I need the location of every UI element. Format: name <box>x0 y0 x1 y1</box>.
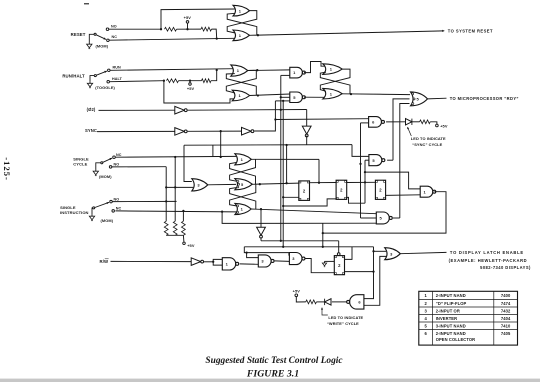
wire L right branch down to U9.a <box>352 145 369 157</box>
wire U7e out to clock line L1 <box>260 238 262 241</box>
svg-text:(EXAMPLE: HEWLETT-PACKARD: (EXAMPLE: HEWLETT-PACKARD <box>449 258 527 263</box>
wire bus B to FF1 lower pin <box>283 196 299 198</box>
nand gate U12 (7410) <box>376 212 389 224</box>
wire S1-NC node <box>109 38 235 40</box>
or gate U16 (7432) display latch enable <box>385 248 401 260</box>
vertical from S4-NC to resistor R8 <box>182 211 184 221</box>
vertical x365 <box>364 160 366 203</box>
wire U7d out to U8a input <box>254 101 368 131</box>
wire U10d out down to U7e <box>260 209 262 227</box>
svg-text:NC: NC <box>116 207 122 211</box>
wire U10b out to dff line <box>251 159 320 184</box>
svg-text:(TOGGLE): (TOGGLE) <box>95 85 115 90</box>
svg-text:3-INPUT NAND: 3-INPUT NAND <box>436 323 466 328</box>
+5V supply (reset latch) <box>184 15 192 29</box>
nand gate U2a (7400, run/halt latch) <box>231 65 248 76</box>
inverter U7a (7404) phase2 buffer <box>175 106 185 114</box>
wire cross-couple U10b out to U10c in <box>230 159 256 181</box>
wire FF2 Q to FF3 D <box>347 181 376 183</box>
switch S4 single instruction <box>89 200 114 220</box>
wire U8a out to LED D1 <box>386 121 405 123</box>
svg-text:NO: NO <box>114 198 120 202</box>
wire L down to U10a input <box>184 145 192 181</box>
nand gate U11 (7400) <box>420 186 433 197</box>
wire cross-couple U2b out to U2a in <box>226 74 256 96</box>
wire cross-couple U1b out to U1a in <box>227 13 259 36</box>
wire U2a out to U3 input <box>248 69 290 71</box>
wire R4 to RUN node <box>211 70 217 81</box>
svg-text:RUN: RUN <box>113 66 122 70</box>
svg-text:“D” FLIP-FLOP: “D” FLIP-FLOP <box>436 301 467 306</box>
svg-text:LED TO INDICATE: LED TO INDICATE <box>411 136 446 141</box>
wire R9 to +5V <box>296 297 306 302</box>
inverter U7f (7404) <box>191 258 201 266</box>
scan artifact dash top-left <box>84 3 89 5</box>
resistor R8 pullup <box>182 221 186 235</box>
wire x365 to U11.a <box>365 172 420 189</box>
svg-text:(Ø2): (Ø2) <box>87 107 96 112</box>
wire U4 out to U5b input <box>304 96 325 98</box>
resistor R9 <box>306 300 317 304</box>
wire U5b out to RDY nand <box>342 93 410 95</box>
wire U4.b from feedback bus A <box>280 96 290 98</box>
wire U12.c input long <box>222 212 376 224</box>
svg-text:+5V: +5V <box>184 15 192 20</box>
nand gate U15 (7432?) <box>289 253 302 265</box>
wire S2-RUN node <box>110 69 235 71</box>
wire U4.c from sync path <box>275 100 289 102</box>
resistor R6 pullup <box>164 221 168 235</box>
svg-text:R/W: R/W <box>100 259 109 264</box>
wire U13 out to U14.b <box>240 263 259 265</box>
wire S2-HALT node <box>109 80 165 82</box>
wire U7f out to U13 inputs <box>204 259 222 265</box>
parts legend table <box>419 291 518 345</box>
wire U14 out to U15.b <box>275 260 290 263</box>
vertical x322.8 <box>322 223 324 248</box>
wire x365 to U9.b <box>365 159 369 161</box>
wire SYNC input <box>97 130 175 132</box>
nand gate U1a (7400, reset latch) <box>233 5 250 16</box>
wire U6 output to RDY <box>428 97 447 100</box>
wire cross-couple U10c out to U10b in <box>230 163 256 185</box>
wire S3-NC to U10b.a <box>115 156 236 158</box>
nand gate U5a (7400, sync latch) <box>323 64 342 75</box>
wire clock node down to U7c <box>306 110 308 127</box>
+5V terminal (sync LED) <box>436 123 448 128</box>
resistor R4 pullup RUN <box>202 79 212 83</box>
or gate U10a (7432) <box>192 179 208 191</box>
svg-text:-125-: -125- <box>2 157 12 181</box>
wire to system reset <box>250 30 445 36</box>
wire cross-couple U5a out to U5b in <box>320 69 350 91</box>
nand gate U8b (7405 o.c., mirrored) <box>350 295 364 309</box>
svg-text:(MOM): (MOM) <box>101 218 114 223</box>
wire U16 out to display latch enable <box>400 252 446 253</box>
svg-text:7404: 7404 <box>501 316 511 321</box>
line L from U7c to gates <box>184 144 352 146</box>
svg-text:NC: NC <box>116 153 122 157</box>
svg-text:7405: 7405 <box>501 331 511 336</box>
wire U11 out feedback loop <box>323 192 446 233</box>
wire U15 out to FF4 <box>306 259 335 273</box>
nand gate U2b (7400, run/halt latch) <box>232 90 249 101</box>
wire R3 to +5V tap <box>179 80 202 82</box>
wire R1 to +5V tap <box>177 28 202 30</box>
feedback bus B (vertical x=283.2) <box>282 101 284 248</box>
wire U8b out to LED D2 <box>332 301 347 303</box>
wire FF2 lower out to vertical x365 <box>347 197 365 203</box>
line L2 r/w logic feed <box>244 247 289 258</box>
label R/W <box>100 259 109 264</box>
vertical from S3-NC to resistor R7 <box>174 157 176 221</box>
svg-text:HALT: HALT <box>112 77 123 81</box>
feedback bus A (vertical x=280.8) <box>280 75 282 242</box>
wire to U16.a <box>374 250 387 252</box>
wire U7b out <box>188 130 242 132</box>
wire bus B to FF2 lower pin <box>283 199 336 206</box>
label SINGLE INSTRUCTION <box>60 205 88 215</box>
inverter U7b (7404) sync buffer <box>175 128 185 136</box>
leader arrow to LED D1 <box>407 127 411 136</box>
nand gate U4 (7410 3-input) <box>290 92 303 103</box>
nand gate U13 (7400) <box>222 258 235 270</box>
LED D1 sync indicator <box>406 119 412 125</box>
wire U2b out to U4 input <box>250 94 290 97</box>
wire HALT to U2b input <box>164 81 235 103</box>
vertical V4 to dff input line <box>285 145 287 184</box>
svg-text:SYNC: SYNC <box>85 128 97 133</box>
wire U9 out up to U6.b <box>387 159 393 161</box>
switch S2 RUN/HALT (SPDT toggle) <box>87 69 110 88</box>
resistor R7 pullup <box>173 221 177 235</box>
svg-text:RUN/HALT: RUN/HALT <box>62 73 85 78</box>
+5V terminal (write LED) <box>293 289 301 297</box>
wire U3 out to U5a input <box>304 62 325 73</box>
wire LED D2 to R9 <box>316 301 324 303</box>
wire S1-NO node <box>109 9 235 30</box>
wire U6.b from U9 out (vertical) <box>393 99 410 160</box>
svg-text:RESET: RESET <box>71 32 86 37</box>
svg-text:5082-7340 DISPLAYS): 5082-7340 DISPLAYS) <box>480 265 531 270</box>
+5V supply (run/halt latch) <box>187 81 195 92</box>
svg-text:“WRITE” CYCLE: “WRITE” CYCLE <box>327 321 359 326</box>
svg-text:7400: 7400 <box>501 293 511 298</box>
wire sync tap down <box>220 131 222 157</box>
wire U10d out node <box>251 208 376 214</box>
line L3 horizontal <box>244 246 373 248</box>
wire R2 to NC node <box>212 29 218 40</box>
wire cross-couple U2a out to U2b in <box>226 70 256 93</box>
vertical bus from U8a.b down <box>359 123 361 218</box>
wire U6.c from U12 out (vertical) <box>400 104 410 219</box>
d flip-flop FF2 (7474) <box>336 180 347 199</box>
resistor R3 pullup HALT <box>167 79 179 83</box>
wire clock line tap down to single-cycle line <box>212 145 214 157</box>
svg-text:INSTRUCTION: INSTRUCTION <box>60 210 88 215</box>
ground at FF4 <box>322 261 334 266</box>
wire cross-couple U1a out to U1b in <box>227 11 257 33</box>
label SINGLE CYCLE <box>73 156 89 166</box>
svg-text:NO: NO <box>114 162 120 166</box>
svg-text:7474: 7474 <box>501 301 511 306</box>
wire R/W input <box>111 260 192 262</box>
d flip-flop FF3 (7474) <box>375 180 385 199</box>
svg-text:(MOM): (MOM) <box>99 174 112 179</box>
inverter U7e (7404) down <box>257 227 266 235</box>
svg-text:LED TO INDICATE: LED TO INDICATE <box>328 315 363 320</box>
resistor R2 pullup NC <box>201 27 212 31</box>
switch S3 single cycle <box>93 156 115 176</box>
svg-text:CYCLE: CYCLE <box>73 162 87 167</box>
nand gate U10d (7400, latch) <box>235 203 251 214</box>
nand gate U3 (7400) <box>290 67 303 78</box>
leader arrow to LED D2 <box>321 307 328 315</box>
vertical x373.5 to write gate <box>364 247 375 299</box>
inverter U7d (7404) <box>242 127 252 135</box>
svg-text:2-INPUT NAND: 2-INPUT NAND <box>436 331 466 336</box>
+5V terminal (pullups) <box>183 242 195 248</box>
wire phase2 to clock node <box>188 109 307 111</box>
resistor R1 pullup NO <box>165 27 177 31</box>
wire FF3 out to U11.b <box>386 194 421 197</box>
svg-text:NC: NC <box>112 35 118 39</box>
nand gate U1b (7400, reset latch) <box>233 30 250 41</box>
resistor R5 <box>412 120 430 124</box>
wire S3-NO down <box>112 167 167 222</box>
nand gate U6 (7410) to RDY <box>411 92 428 106</box>
wire R5 to +5V <box>430 122 437 124</box>
d flip-flop FF4 (7474) <box>334 253 344 275</box>
wire U8a.b from vertical bus <box>361 122 369 124</box>
wire U12.b input <box>361 217 377 219</box>
wire U3.b from feedback bus A <box>281 74 290 76</box>
svg-text:(MOM): (MOM) <box>96 44 109 49</box>
nand gate U9 (7410) <box>369 155 382 166</box>
nand gate U10b (7400, latch) <box>235 154 251 165</box>
wire FF4 Q up <box>345 247 353 260</box>
nand gate U5b (7400, sync latch) <box>323 88 342 99</box>
inverter U7c (7404) down <box>302 126 311 134</box>
svg-text:2-INPUT OR: 2-INPUT OR <box>436 308 460 313</box>
line L1 clock to FF4 <box>261 241 339 253</box>
svg-text:2-INPUT NAND: 2-INPUT NAND <box>436 293 466 298</box>
d flip-flop FF1 (7474) <box>299 181 310 201</box>
scan artifact strip bottom edge <box>0 379 540 382</box>
nand gate U8a (7405 o.c.) <box>369 117 382 128</box>
svg-text:+5V: +5V <box>440 123 448 128</box>
nand gate U10c (7410, latch) <box>235 179 252 190</box>
svg-text:NO: NO <box>111 25 117 29</box>
wire phase2 input <box>99 109 175 111</box>
wire cross-couple U10c out to U10d in <box>230 184 256 206</box>
wire U7c out to line L <box>306 136 308 145</box>
wire S4-NC to U10d.b <box>115 210 236 213</box>
wire U10c out to FF1 D input <box>252 183 298 185</box>
svg-text:TO SYSTEM RESET: TO SYSTEM RESET <box>448 28 493 33</box>
svg-text:“SYNC” CYCLE: “SYNC” CYCLE <box>412 142 442 147</box>
switch S1 RESET (SPDT momentary) <box>87 28 110 49</box>
LED D2 write indicator <box>325 299 331 305</box>
wire FF4 lower Q to bus <box>345 270 375 272</box>
wire S4-NO node <box>112 200 176 202</box>
wire resistor commons to +5V <box>166 235 184 242</box>
wire U12 out to vertical <box>393 217 400 219</box>
wire cross-couple U10d out to U10c in <box>230 188 256 209</box>
wire S3-NO branch to U10a.b <box>166 186 193 188</box>
svg-text:FIGURE 3.1: FIGURE 3.1 <box>246 369 299 380</box>
svg-text:7410: 7410 <box>501 323 511 328</box>
wire FF1 Q to FF2 D <box>310 182 337 184</box>
svg-text:7432: 7432 <box>501 308 511 313</box>
svg-text:INVERTER: INVERTER <box>436 316 458 321</box>
svg-text:+5V: +5V <box>187 243 195 248</box>
nand gate U14 (7432?) <box>258 255 271 267</box>
wire cross-couple U5b out to U5a in <box>320 72 350 94</box>
svg-text:+5V: +5V <box>293 289 301 294</box>
wire U16.b from write gate branch <box>364 256 386 305</box>
svg-text:TO MICROPROCESSOR “RDY”: TO MICROPROCESSOR “RDY” <box>450 96 519 101</box>
svg-text:+5V: +5V <box>187 86 195 91</box>
svg-text:OPEN COLLECTOR: OPEN COLLECTOR <box>436 337 476 342</box>
wire U10a out to U10c mid input <box>208 183 236 185</box>
svg-text:TO DISPLAY LATCH ENABLE: TO DISPLAY LATCH ENABLE <box>450 250 524 255</box>
svg-text:Suggested Static Test Control: Suggested Static Test Control Logic <box>205 356 343 366</box>
